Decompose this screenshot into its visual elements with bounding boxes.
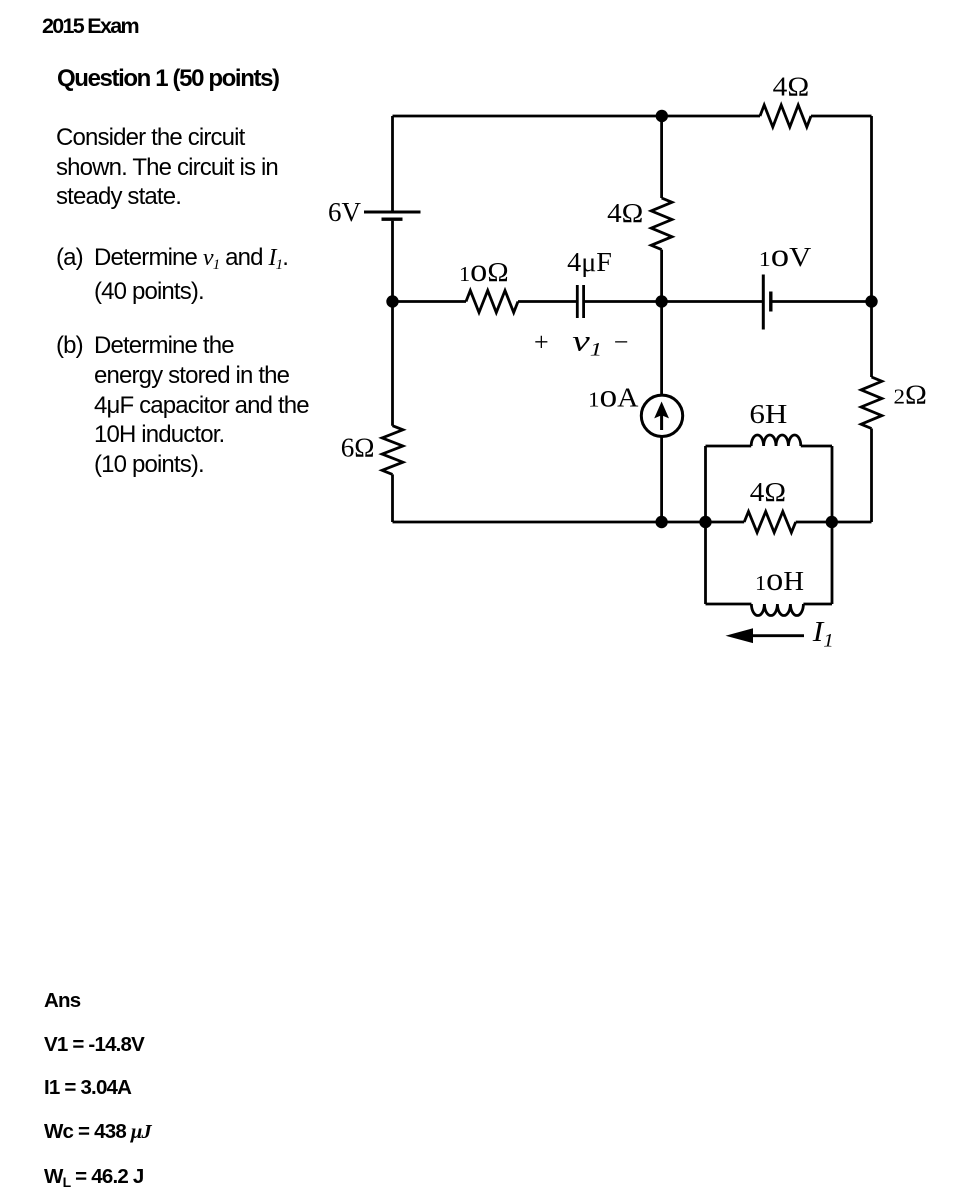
svg-text:−: −: [614, 327, 629, 356]
svg-text:6V: 6V: [328, 196, 361, 227]
svg-text:1oV: 1oV: [759, 238, 812, 274]
svg-text:1oH: 1oH: [755, 562, 804, 598]
svg-text:v1: v1: [572, 325, 602, 361]
svg-text:+: +: [534, 327, 549, 356]
svg-text:6H: 6H: [749, 398, 787, 429]
svg-text:2Ω: 2Ω: [894, 379, 927, 410]
svg-text:4Ω: 4Ω: [607, 197, 643, 228]
svg-text:4μF: 4μF: [567, 246, 612, 277]
svg-text:6Ω: 6Ω: [341, 431, 375, 462]
svg-text:4Ω: 4Ω: [773, 71, 810, 102]
svg-text:1oA: 1oA: [588, 379, 639, 415]
svg-text:1oΩ: 1oΩ: [459, 253, 509, 289]
svg-text:I1: I1: [812, 617, 834, 652]
svg-text:4Ω: 4Ω: [750, 476, 786, 507]
